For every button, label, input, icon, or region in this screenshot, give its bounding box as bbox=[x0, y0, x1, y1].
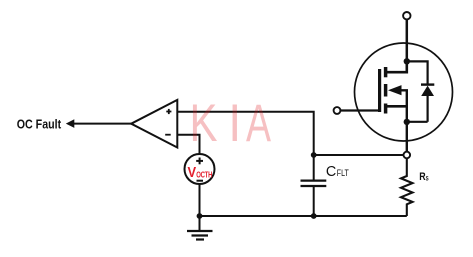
svg-text:OC Fault: OC Fault bbox=[17, 117, 62, 132]
svg-text:S: S bbox=[426, 175, 429, 182]
svg-text:FLT: FLT bbox=[337, 168, 349, 178]
svg-text:C: C bbox=[326, 163, 337, 180]
svg-text:OCTH: OCTH bbox=[196, 171, 212, 180]
svg-text:I: I bbox=[228, 94, 241, 153]
svg-text:V: V bbox=[188, 164, 197, 181]
svg-text:K: K bbox=[190, 94, 218, 153]
svg-text:A: A bbox=[246, 94, 271, 153]
